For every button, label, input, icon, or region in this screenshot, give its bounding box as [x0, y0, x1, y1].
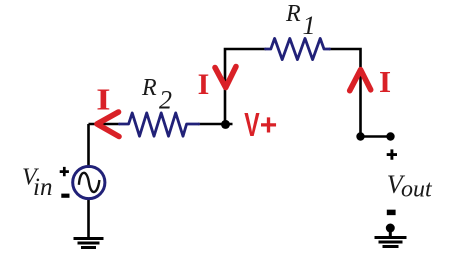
svg-text:I: I [96, 83, 110, 117]
svg-text:1: 1 [303, 11, 316, 40]
svg-text:I: I [198, 68, 210, 101]
svg-text:I: I [379, 64, 391, 99]
svg-text:in: in [33, 174, 52, 201]
svg-text:R: R [285, 1, 301, 27]
svg-text:V: V [244, 107, 259, 144]
svg-text:+: + [260, 109, 278, 142]
svg-text:R: R [141, 75, 157, 101]
svg-text:2: 2 [159, 85, 172, 114]
svg-text:out: out [401, 177, 433, 203]
